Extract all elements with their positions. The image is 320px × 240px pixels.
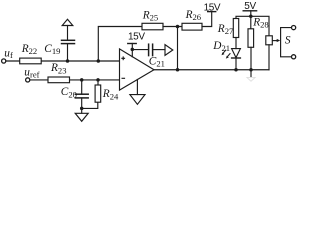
wire D21 to output (235, 58, 237, 70)
switch terminal bottom (292, 55, 296, 59)
node C20 tap (80, 78, 84, 82)
wire R27 to D21 (235, 38, 237, 49)
faint ground triangle (247, 77, 255, 81)
node R24 tap (96, 78, 100, 82)
wire C20 branch (81, 80, 83, 94)
wire C19 branch (67, 44, 69, 61)
wire op-amp output (154, 69, 269, 71)
wire feedback up (98, 27, 142, 62)
wire junction down to output (177, 27, 179, 70)
svg-text:15V: 15V (204, 3, 221, 14)
terminal u_f (2, 59, 6, 63)
wire to C21 (132, 49, 148, 51)
wire R26 to 15V (202, 12, 212, 27)
wire 5V feed (250, 11, 252, 29)
node bottom gnd (80, 107, 84, 111)
op-amp - sign (122, 77, 126, 79)
stub to faint ground (250, 70, 252, 77)
resistor R28 (248, 29, 254, 48)
ground (up-pointing open triangle) (62, 19, 73, 25)
node R28/output (249, 68, 253, 72)
capacitor C20 (75, 93, 88, 95)
wire C21 to right ground (153, 49, 165, 51)
resistor R24 (95, 85, 101, 102)
resistor R25 (142, 23, 163, 30)
node + input feedback tap (97, 59, 101, 63)
capacitor C19 (62, 43, 75, 45)
capacitor C21 (148, 44, 150, 55)
svg-text:15V: 15V (128, 32, 145, 43)
wire 15V to opamp top (131, 44, 133, 57)
wire R24 branch (97, 80, 99, 85)
wire u_f to opamp + input (6, 60, 120, 62)
svg-text:uf: uf (4, 48, 13, 61)
svg-text:5V: 5V (244, 1, 256, 12)
actuator arrow to switch (273, 40, 278, 42)
node R25/R26 (176, 25, 180, 29)
op-amp + sign (121, 56, 125, 60)
node output/feedback (176, 68, 180, 72)
ground (down-pointing open triangle) (75, 113, 88, 121)
resistor R27 (233, 19, 238, 38)
LED arrows (223, 50, 226, 53)
terminal u_ref (26, 78, 30, 82)
15V supply bar (left) (128, 43, 136, 45)
wire C20 to bottom node (81, 98, 83, 113)
wire C19 to upper ground (67, 26, 69, 41)
ground (right-pointing open triangle) (165, 45, 173, 56)
node D21/output (234, 68, 238, 72)
wire u_ref to opamp - input (30, 79, 120, 81)
resistor R26 (182, 23, 202, 30)
node C21 tap (131, 48, 135, 52)
5V supply bar (243, 10, 256, 12)
resistor R22 (20, 58, 42, 64)
wire actuator to output end (268, 45, 270, 70)
switch terminal top (292, 26, 296, 30)
op-amp U1 (120, 49, 155, 90)
actuator box (switch driver) (266, 36, 273, 45)
15V supply bar (right) (208, 11, 216, 13)
5V rail (236, 16, 269, 36)
wire R24 bottom (82, 102, 98, 108)
node at C19 tap (66, 59, 70, 63)
svg-text:S: S (285, 35, 291, 47)
wire R25 to junction (163, 26, 182, 28)
wire opamp bottom pin (136, 80, 138, 95)
ground (down-pointing open triangle, under op-amp) (130, 95, 145, 105)
node 5V rail (249, 15, 253, 19)
wire R28 to output (250, 47, 252, 69)
resistor R23 (48, 77, 70, 83)
LED D21 (232, 49, 241, 58)
switch S wire (281, 28, 292, 57)
